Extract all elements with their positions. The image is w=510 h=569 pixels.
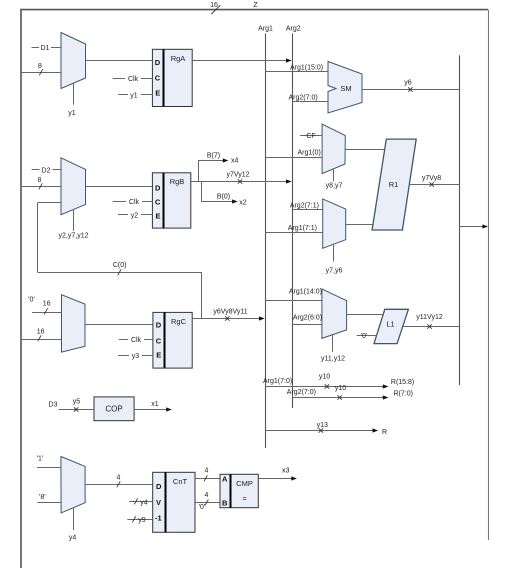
svg-text:D: D	[156, 482, 162, 491]
svg-text:8: 8	[38, 177, 42, 184]
svg-text:A: A	[222, 474, 228, 483]
svg-text:Arg2(7:1): Arg2(7:1)	[290, 202, 319, 209]
svg-text:y4: y4	[69, 535, 77, 542]
svg-text:RgC: RgC	[171, 317, 187, 326]
svg-text:D3: D3	[49, 401, 58, 408]
svg-text:Arg1(7:0): Arg1(7:0)	[263, 378, 292, 385]
svg-text:y7,y6: y7,y6	[326, 267, 343, 274]
svg-text:D1: D1	[41, 45, 50, 52]
svg-text:D: D	[156, 321, 162, 330]
svg-text:y6: y6	[404, 79, 412, 86]
svg-text:=: =	[242, 496, 246, 503]
svg-text:x1: x1	[151, 401, 159, 408]
svg-text:y7Vy12: y7Vy12	[226, 172, 249, 179]
svg-text:Arg2(7:0): Arg2(7:0)	[289, 94, 318, 101]
svg-text:D2: D2	[42, 167, 51, 174]
svg-text:y13: y13	[317, 422, 328, 429]
svg-text:y5: y5	[73, 399, 81, 406]
svg-text:Clk: Clk	[129, 199, 140, 206]
svg-text:Arg1: Arg1	[258, 26, 273, 33]
svg-text:16: 16	[37, 329, 45, 336]
svg-text:y11Vy12: y11Vy12	[416, 314, 443, 321]
svg-text:B: B	[222, 498, 228, 507]
svg-text:L1: L1	[386, 319, 394, 328]
svg-text:y10: y10	[335, 385, 346, 392]
svg-text:y3: y3	[132, 353, 140, 360]
svg-text:V: V	[156, 498, 161, 507]
svg-text:RgB: RgB	[170, 177, 185, 186]
svg-text:x3: x3	[282, 468, 290, 475]
svg-text:CMP: CMP	[236, 479, 253, 488]
svg-text:'8': '8'	[39, 494, 46, 501]
svg-text:y9: y9	[138, 517, 146, 524]
svg-text:x4: x4	[231, 158, 239, 165]
svg-text:D: D	[155, 183, 161, 192]
svg-text:Arg1(7:1): Arg1(7:1)	[288, 225, 317, 232]
svg-text:B(7): B(7)	[207, 153, 220, 160]
svg-text:R1: R1	[389, 180, 399, 189]
svg-text:'0': '0'	[28, 297, 35, 304]
svg-text:'0': '0'	[361, 333, 368, 340]
svg-text:y2: y2	[131, 213, 139, 220]
svg-text:16: 16	[210, 2, 218, 9]
svg-text:C: C	[155, 73, 161, 82]
svg-text:y6Vy8Vy11: y6Vy8Vy11	[213, 309, 247, 316]
svg-text:E: E	[156, 351, 161, 360]
svg-text:Arg1(0): Arg1(0)	[298, 149, 321, 156]
svg-text:4: 4	[205, 492, 209, 499]
svg-text:R: R	[382, 429, 387, 436]
svg-text:y11,y12: y11,y12	[321, 355, 345, 362]
svg-text:-1: -1	[155, 514, 162, 523]
svg-text:y4: y4	[140, 500, 148, 507]
svg-text:B(0): B(0)	[217, 193, 230, 200]
svg-text:C(0): C(0)	[113, 262, 127, 269]
svg-text:Arg2(6:0): Arg2(6:0)	[293, 314, 322, 321]
svg-text:Arg1(14:0): Arg1(14:0)	[289, 289, 322, 296]
svg-text:R(15:8): R(15:8)	[391, 379, 414, 386]
svg-text:16: 16	[43, 301, 51, 308]
svg-text:Clk: Clk	[131, 337, 142, 344]
svg-text:Arg2(7:0): Arg2(7:0)	[287, 389, 316, 396]
svg-text:y2,y7,y12: y2,y7,y12	[59, 233, 89, 240]
svg-text:8: 8	[38, 63, 42, 70]
svg-text:'0': '0'	[199, 504, 206, 511]
svg-text:E: E	[155, 88, 160, 97]
svg-text:Clk: Clk	[128, 76, 139, 83]
svg-text:y1: y1	[130, 93, 138, 100]
svg-text:C: C	[156, 336, 162, 345]
svg-text:CnT: CnT	[173, 477, 188, 486]
svg-text:SM: SM	[340, 84, 351, 93]
svg-text:'1': '1'	[37, 456, 44, 463]
svg-text:y7Vy8: y7Vy8	[422, 175, 441, 182]
svg-text:4: 4	[117, 474, 121, 481]
svg-text:Arg2: Arg2	[286, 26, 301, 33]
svg-text:x2: x2	[239, 199, 247, 206]
svg-text:4: 4	[205, 468, 209, 475]
svg-text:y8,y7: y8,y7	[326, 183, 343, 190]
svg-text:R(7:0): R(7:0)	[394, 391, 413, 398]
svg-text:E: E	[156, 211, 161, 220]
svg-text:Arg1(15:0): Arg1(15:0)	[290, 64, 323, 71]
svg-text:COP: COP	[105, 405, 122, 414]
svg-text:CF: CF	[306, 133, 315, 140]
svg-text:y10: y10	[319, 373, 330, 380]
svg-text:C: C	[155, 197, 161, 206]
svg-text:y1: y1	[68, 110, 76, 117]
svg-text:D: D	[155, 58, 161, 67]
svg-text:Z: Z	[253, 2, 258, 9]
svg-text:RgA: RgA	[171, 54, 186, 63]
